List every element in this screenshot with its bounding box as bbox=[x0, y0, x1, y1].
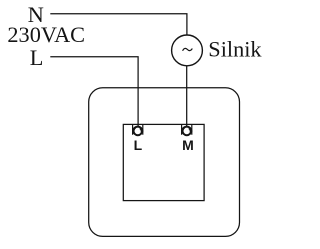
sensor enclosure (rounded plate) bbox=[89, 88, 240, 237]
svg-text:Silnik: Silnik bbox=[208, 37, 262, 62]
svg-text:L: L bbox=[134, 137, 143, 153]
wire motor to terminal M bbox=[186, 66, 188, 127]
wire L to terminal L bbox=[50, 57, 138, 127]
svg-text:M: M bbox=[182, 137, 194, 153]
svg-text:230VAC: 230VAC bbox=[7, 22, 85, 47]
wire N to motor bbox=[50, 14, 187, 36]
terminal L screw bbox=[134, 127, 143, 136]
motor M1 (Silnik) bbox=[172, 35, 203, 66]
svg-text:L: L bbox=[30, 45, 44, 70]
AC symbol ~ inside motor bbox=[183, 48, 193, 50]
terminal M slot bbox=[182, 124, 192, 134]
terminal block body bbox=[123, 124, 204, 200]
terminal M screw bbox=[183, 127, 192, 136]
terminal L slot bbox=[133, 124, 143, 134]
